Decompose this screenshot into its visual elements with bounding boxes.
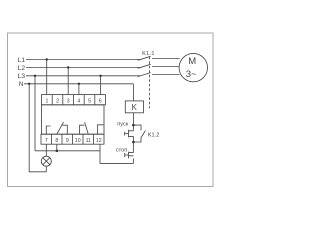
- wire K1.1 to motor phase 3: [152, 74, 180, 76]
- relay bottom terminal strip 7-12: [41, 134, 104, 144]
- svg-text:10: 10: [75, 138, 81, 144]
- svg-text:11: 11: [86, 138, 91, 144]
- contact bracket terminal 12: [98, 125, 104, 134]
- svg-text:L1: L1: [18, 57, 26, 64]
- contact blade terminal 8: [57, 122, 64, 134]
- bus L1: [26, 59, 140, 61]
- wire terminal 8 stub: [56, 144, 58, 151]
- wire lamp bottom: [45, 166, 47, 172]
- mechanical link dashed K1.1 to K: [149, 57, 151, 108]
- svg-text:K: K: [132, 103, 138, 112]
- start button pusk stem: [125, 133, 129, 135]
- contact bracket terminal 9: [62, 125, 67, 134]
- wire L3 to terminal 6: [100, 76, 102, 95]
- contact K1.2 blade: [141, 131, 145, 138]
- wire terminal 12 drop: [99, 144, 101, 163]
- wire N left drop: [29, 84, 46, 172]
- wire bottom horizontal L3 to 8 and 12: [35, 150, 100, 152]
- lamp circle: [41, 156, 51, 166]
- node L1-T1: [46, 58, 48, 60]
- stop button lower lead: [132, 158, 134, 163]
- relay top terminal strip 1-6: [42, 95, 106, 105]
- node N-T4: [78, 83, 80, 85]
- contact K1.2 branch top: [133, 125, 141, 130]
- relay body box: [42, 105, 105, 134]
- svg-text:M: M: [188, 56, 196, 67]
- svg-text:4: 4: [77, 98, 80, 104]
- contact K1.2 branch bottom: [133, 137, 141, 142]
- contact blade terminal 11: [85, 122, 89, 134]
- svg-text:3~: 3~: [186, 69, 197, 80]
- stop button bridge: [128, 152, 130, 159]
- svg-text:1: 1: [45, 98, 48, 104]
- node L3-T6: [99, 75, 101, 77]
- wire L2 to terminal 3: [67, 68, 69, 95]
- bus L3: [26, 75, 140, 77]
- svg-text:N: N: [19, 81, 24, 88]
- node L3 left: [34, 75, 36, 77]
- bus L2: [26, 67, 140, 69]
- contact bracket terminal 7: [46, 126, 50, 134]
- svg-text:пуск: пуск: [117, 122, 129, 128]
- node L2-T3: [67, 66, 69, 68]
- wire L3 left drop: [34, 76, 36, 151]
- terminal numbers 1-6: [45, 98, 101, 104]
- wire coil K to start node: [132, 113, 134, 125]
- contact K1.1 pole L3: [138, 73, 151, 77]
- bus N: [24, 83, 133, 85]
- svg-text:9: 9: [66, 138, 69, 144]
- svg-text:стоп: стоп: [116, 148, 127, 154]
- svg-text:K1.2: K1.2: [148, 133, 160, 139]
- node T8 bottom: [56, 150, 59, 153]
- motor M circle: [179, 53, 207, 81]
- stop button stem: [125, 154, 129, 156]
- contactor coil K box: [125, 101, 143, 113]
- svg-text:8: 8: [55, 138, 58, 144]
- svg-text:2: 2: [56, 98, 59, 104]
- svg-text:12: 12: [96, 138, 102, 144]
- node start bottom: [132, 141, 135, 144]
- contact bracket terminal 10: [80, 125, 85, 134]
- terminal numbers 7-12: [45, 138, 102, 144]
- lamp cross: [43, 158, 50, 165]
- node start top: [132, 124, 135, 127]
- svg-text:3: 3: [67, 98, 70, 104]
- start button pusk upper lead: [132, 125, 134, 131]
- stop button handle: [124, 153, 126, 157]
- wire N to contactor coil: [132, 84, 134, 101]
- svg-text:L2: L2: [18, 65, 26, 72]
- start button pusk handle: [124, 132, 126, 136]
- contact K1.1 pole L2: [138, 64, 151, 68]
- svg-text:6: 6: [99, 98, 102, 104]
- wire K1.1 to motor phase 2: [152, 66, 179, 68]
- wire K1.1 to motor phase 1: [152, 58, 180, 60]
- svg-text:L3: L3: [18, 73, 26, 80]
- wire bottom to stop button: [100, 163, 133, 165]
- start button pusk contacts: [129, 131, 134, 137]
- wire N to terminal 4: [78, 84, 80, 95]
- contact K1.1 pole L1: [138, 56, 151, 60]
- start button pusk bridge: [128, 130, 130, 138]
- svg-text:K1.1: K1.1: [142, 51, 155, 57]
- node N left: [28, 83, 30, 85]
- wire terminal 7 to lamp: [45, 144, 47, 156]
- svg-text:7: 7: [45, 138, 48, 144]
- svg-text:5: 5: [88, 98, 91, 104]
- wire L1 to terminal 1: [46, 60, 48, 95]
- start button pusk lower lead: [132, 136, 134, 142]
- stop button contacts: [129, 153, 134, 156]
- wire node to stop button: [132, 142, 134, 153]
